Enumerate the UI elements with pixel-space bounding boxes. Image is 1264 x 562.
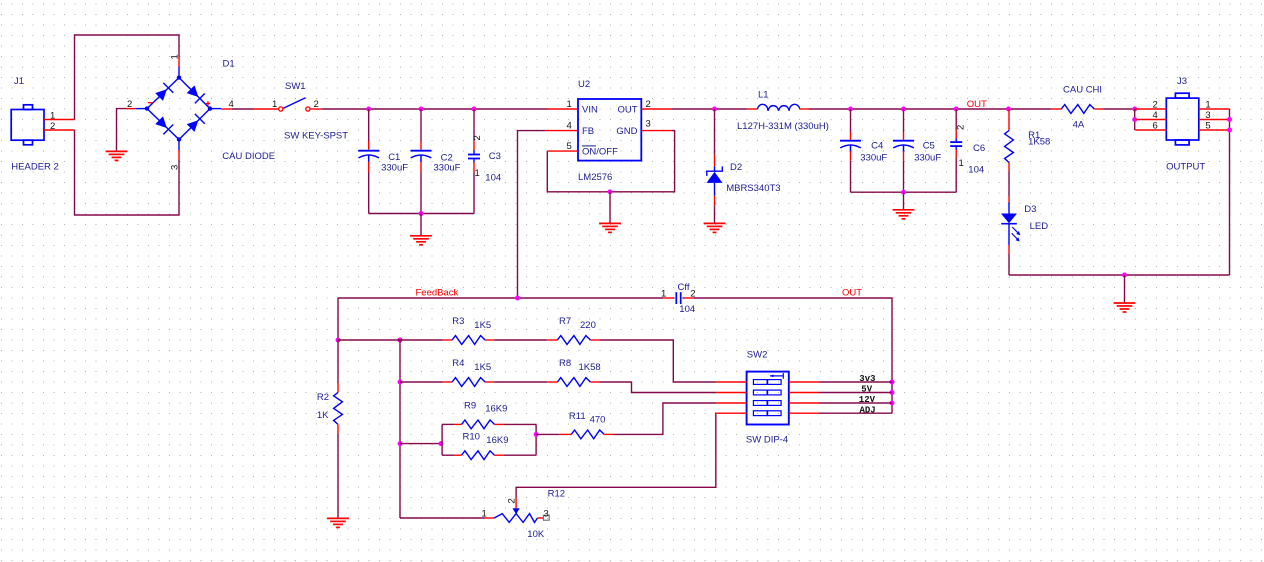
ground below input caps (410, 236, 432, 245)
junction at C6 (954, 107, 959, 112)
svg-text:R7: R7 (559, 316, 571, 327)
svg-text:D1: D1 (223, 59, 235, 70)
capacitor C3 104 (468, 109, 483, 214)
L1 refdes label (758, 89, 769, 100)
output caps bottom rail wire (851, 191, 957, 193)
wire U2 OUT to L1 (671, 108, 747, 110)
capacitor C1 330uF (358, 109, 379, 214)
svg-text:5V: 5V (861, 385, 872, 395)
junction at C1 (366, 107, 371, 112)
resistor R3 1K5 (443, 336, 494, 345)
junction OUT at 12V row (890, 401, 895, 406)
D3 value label LED (1030, 221, 1049, 232)
SW2 pin 7 stub (5V) (789, 392, 819, 394)
R12 value label (527, 529, 545, 540)
schottky diode D2 MBRS340T3 (707, 109, 723, 223)
U2 pin 2 OUT stub (641, 99, 671, 110)
svg-text:2: 2 (507, 498, 518, 503)
SW1 value label SW KEY-SPST (284, 131, 348, 142)
wire 5V row to OUT (819, 392, 892, 394)
svg-text:OUT: OUT (967, 99, 987, 110)
net alias 3v3 (859, 374, 875, 384)
SW2 pin 3 stub (716, 402, 746, 404)
svg-text:10K: 10K (527, 529, 545, 540)
input caps bottom rail wire (369, 213, 474, 215)
J3 pin 1 stub (1199, 100, 1230, 111)
CAU CHI value label 4A (1073, 119, 1085, 130)
J3 refdes label (1177, 76, 1187, 87)
Cff value label (679, 304, 695, 315)
SW2 pin 5 stub (ADJ) (789, 412, 819, 414)
junction at J3 pin2 (1132, 107, 1137, 112)
wire fuse to J3 (1104, 108, 1136, 110)
svg-text:MBRS340T3: MBRS340T3 (726, 183, 780, 194)
svg-text:C5: C5 (923, 141, 935, 152)
J1 value label HEADER 2 (11, 162, 59, 173)
D3 refdes label (1024, 204, 1036, 215)
svg-text:1K: 1K (317, 410, 329, 421)
svg-text:D3: D3 (1024, 204, 1036, 215)
U2 pin 5 ON/OFF stub (547, 141, 578, 152)
svg-text:L1: L1 (758, 89, 769, 100)
svg-text:5: 5 (567, 141, 572, 152)
C2 value label (434, 162, 461, 173)
L1 value label (737, 121, 829, 132)
wire J1 pin1 to bridge pin1 (top loop) (75, 35, 180, 120)
svg-text:2: 2 (127, 99, 132, 110)
junction at R4 row (398, 380, 403, 385)
C6 value label (968, 165, 984, 176)
net label FeedBack (416, 288, 459, 299)
C1 refdes label (388, 152, 400, 163)
wire R7 to SW2 pin1 (600, 340, 717, 382)
U2 pin 4 FB stub (545, 121, 578, 132)
junction OUT at 3v3 row (890, 380, 895, 385)
svg-text:2: 2 (50, 121, 55, 132)
D1 pin 1 lead (top) (170, 54, 181, 77)
SW2 pin 6 stub (12V) (789, 402, 819, 404)
C3 value label (485, 173, 501, 184)
svg-text:1: 1 (661, 289, 666, 300)
junction at J3 pin4 (1132, 117, 1137, 122)
J3 pin 2 stub (1135, 100, 1166, 111)
svg-text:CAU CHI: CAU CHI (1063, 85, 1102, 96)
R7 refdes label (559, 316, 571, 327)
R8 value label (579, 362, 601, 373)
svg-text:1K5: 1K5 (474, 320, 491, 331)
wire R11 to SW2 pin3 (613, 403, 716, 434)
R2 refdes label (317, 392, 329, 403)
J3 pin 5 stub (1199, 121, 1230, 132)
capacitor C2 330uF (411, 109, 432, 214)
junction at R9R10 left edge (438, 441, 443, 446)
J3 value label OUTPUT (1166, 162, 1205, 173)
net alias 12V (859, 395, 876, 405)
svg-text:16K9: 16K9 (486, 435, 508, 446)
svg-text:2: 2 (1153, 100, 1158, 111)
fuse CAU CHI 4A (1052, 105, 1104, 114)
C4 value label (860, 152, 887, 163)
divider column vertical wire (399, 340, 401, 518)
svg-text:SW2: SW2 (747, 349, 768, 360)
wire U2 ON/OFF to ground rail (547, 131, 674, 192)
junction at divider column top (398, 338, 403, 343)
resistor R10 16K9 (442, 451, 536, 460)
main input rail wire SW1 to U2 (322, 108, 548, 110)
wire R4 row (400, 381, 443, 383)
wire feedback rail down to divider (337, 298, 339, 340)
svg-text:2: 2 (955, 125, 966, 130)
junction at R9R10 row (398, 441, 403, 446)
CAU CHI refdes label (1063, 85, 1102, 96)
svg-text:3: 3 (1205, 110, 1210, 121)
junction at J3 pin5 (1227, 128, 1232, 133)
junction at U2 ground (608, 189, 613, 194)
svg-text:C4: C4 (871, 141, 883, 152)
wire to R9 R10 pair (400, 443, 442, 445)
C1 value label (381, 162, 408, 173)
R9 R10 parallel loop right edge (535, 424, 537, 455)
R1 refdes label (1028, 130, 1040, 141)
svg-text:1: 1 (475, 168, 480, 179)
wire J3 right pins to ground rail (1229, 109, 1231, 275)
svg-text:2: 2 (314, 99, 319, 110)
J3 pin 6 stub (1135, 121, 1166, 132)
svg-text:1: 1 (959, 158, 964, 169)
svg-text:12V: 12V (859, 395, 876, 405)
ground below output rail (1114, 303, 1136, 312)
svg-text:2: 2 (472, 135, 483, 140)
SW2 pin 8 stub (3v3) (789, 381, 819, 383)
svg-text:3: 3 (646, 119, 651, 130)
svg-text:U2: U2 (578, 79, 590, 90)
svg-text:1K58: 1K58 (1028, 137, 1050, 148)
wire J3 left pins vertical (1134, 109, 1136, 130)
wire to U2 ground symbol (609, 192, 611, 223)
connector J1 (11, 105, 44, 145)
D1 value label CAU DIODE (222, 151, 275, 162)
C2 refdes label (441, 153, 453, 164)
svg-text:FeedBack: FeedBack (416, 288, 459, 299)
R11 value label (590, 414, 606, 425)
wire 3v3 row to OUT (819, 381, 892, 383)
svg-text:330uF: 330uF (914, 152, 941, 163)
R2 value label (317, 410, 329, 421)
svg-text:D2: D2 (730, 162, 742, 173)
J1 refdes label (14, 76, 24, 87)
R4 value label (474, 362, 491, 373)
wire R12 wiper to SW2 pin4 (ADJ) (516, 413, 716, 497)
ground below R2 (327, 518, 349, 527)
wire D1 pin2 to ground (117, 109, 127, 151)
SW2 value label SW DIP-4 (746, 435, 788, 446)
svg-text:104: 104 (485, 173, 501, 184)
R1 value label (1028, 137, 1050, 148)
D1 refdes label (223, 59, 235, 70)
U2 refdes label (578, 79, 590, 90)
wire R3 row (338, 339, 443, 341)
svg-text:OUT: OUT (842, 287, 862, 298)
wire R9R10 to R11 (536, 433, 560, 435)
junction at C2 (419, 107, 424, 112)
svg-text:16K9: 16K9 (485, 404, 507, 415)
Cff refdes label (678, 282, 690, 293)
junction at C2 bottom (419, 211, 424, 216)
svg-text:LM2576: LM2576 (578, 172, 612, 183)
ground below D2 (704, 223, 726, 232)
junction feedback at FB wire (515, 296, 520, 301)
svg-text:CAU DIODE: CAU DIODE (222, 151, 275, 162)
U2 pin 1 VIN stub (548, 99, 578, 110)
resistor R4 1K5 (443, 378, 494, 387)
svg-text:330uF: 330uF (381, 162, 408, 173)
D1 pin 2 lead (left) (126, 99, 147, 110)
junction at C5 bottom (901, 190, 906, 195)
J3 pin 4 stub (1135, 110, 1166, 121)
junction at C5 (901, 107, 906, 112)
feedback rail wire (338, 297, 663, 299)
D2 value label (726, 183, 780, 194)
svg-text:3: 3 (170, 165, 181, 170)
svg-text:R11: R11 (569, 411, 586, 422)
svg-text:J3: J3 (1177, 76, 1187, 87)
potentiometer R12 10K (482, 498, 550, 523)
wire D1 pin4 to SW1 (232, 108, 254, 110)
J3 pin 3 stub (1199, 110, 1230, 121)
net label OUT (output rail) (967, 99, 987, 110)
wire divider column to R12 pin1 (400, 517, 485, 519)
svg-text:R2: R2 (317, 392, 329, 403)
net alias 5V (861, 385, 872, 395)
svg-text:OUT: OUT (617, 104, 637, 115)
wire R4 to R8 (494, 381, 547, 383)
svg-text:4A: 4A (1073, 119, 1085, 130)
svg-text:ON/OFF: ON/OFF (582, 146, 618, 157)
R8 refdes label (559, 358, 571, 369)
junction OUT at 5V row (890, 390, 895, 395)
R3 refdes label (452, 316, 464, 327)
svg-text:C6: C6 (973, 143, 985, 154)
wire U2 FB to feedback net (518, 131, 546, 298)
R10 value label (486, 435, 508, 446)
svg-text:LED: LED (1030, 221, 1049, 232)
wire R3 to R7 (494, 339, 547, 341)
svg-text:Cff: Cff (678, 282, 690, 293)
inductor L1 (747, 104, 809, 110)
resistor R11 470 (560, 430, 613, 439)
SW2 pin 2 stub (716, 392, 746, 394)
wire ADJ row to OUT (819, 412, 892, 414)
svg-text:1: 1 (170, 54, 181, 59)
SW2 pin 1 stub (716, 381, 746, 383)
IC U2 LM2576 body (578, 99, 641, 161)
resistor R9 16K9 (442, 420, 536, 429)
svg-text:470: 470 (590, 414, 606, 425)
svg-text:104: 104 (968, 165, 984, 176)
junction at R9R10 right edge (534, 432, 539, 437)
R9 value label (485, 404, 507, 415)
bridge rectifier D1 (CAU DIODE) (145, 75, 212, 141)
svg-text:1: 1 (50, 110, 55, 121)
R10 refdes label (463, 431, 480, 442)
capacitor C5 330uF (893, 109, 914, 192)
resistor R7 220 (547, 336, 600, 345)
svg-text:1K58: 1K58 (579, 362, 601, 373)
capacitor Cff 104 (661, 289, 696, 304)
output rail wire L1 to fuse (809, 108, 1052, 110)
resistor R8 1K58 (547, 378, 600, 387)
R4 refdes label (452, 358, 464, 369)
svg-text:C3: C3 (489, 151, 501, 162)
SW2 refdes label (747, 349, 768, 360)
svg-text:1K5: 1K5 (474, 362, 491, 373)
wire Cff to OUT vertical (693, 298, 892, 413)
C4 refdes label (871, 141, 883, 152)
svg-text:L127H-331M (330uH): L127H-331M (330uH) (737, 121, 829, 132)
net label OUT (feedback) (842, 287, 862, 298)
SW2 pin 4 stub (716, 412, 746, 414)
svg-text:R3: R3 (452, 316, 464, 327)
C5 value label (914, 152, 941, 163)
svg-text:1: 1 (482, 509, 487, 520)
R3 value label (474, 320, 491, 331)
svg-text:3v3: 3v3 (859, 374, 875, 384)
junction at R2 top (336, 338, 341, 343)
D1 pin 3 lead (bottom) (170, 140, 181, 171)
J1 pin 1 stub (44, 110, 75, 121)
resistor R2 1K (334, 340, 343, 518)
svg-text:3: 3 (544, 509, 549, 520)
net alias ADJ (860, 405, 876, 415)
svg-text:VIN: VIN (582, 104, 598, 115)
svg-text:5: 5 (1205, 121, 1210, 132)
svg-text:330uF: 330uF (860, 152, 887, 163)
svg-text:HEADER 2: HEADER 2 (11, 162, 59, 173)
wire C2 bottom to ground (420, 214, 422, 236)
D1 pin 4 lead (right) (210, 99, 234, 110)
ground at bridge pin 2 (106, 151, 128, 160)
R12 refdes label (548, 488, 565, 499)
svg-text:SW1: SW1 (285, 81, 306, 92)
svg-text:J1: J1 (14, 76, 24, 87)
D2 refdes label (730, 162, 742, 173)
J1 pin 2 stub (44, 121, 75, 132)
wire J1 pin2 to bridge pin3 (bottom loop) (75, 130, 180, 215)
R9 refdes label (464, 401, 476, 412)
U2 pin 3 GND stub (641, 119, 671, 131)
resistor R1 1K58 (1005, 109, 1014, 196)
SW1 refdes label (285, 81, 306, 92)
svg-text:220: 220 (580, 320, 596, 331)
svg-text:6: 6 (1153, 121, 1158, 132)
svg-text:330uF: 330uF (434, 162, 461, 173)
output ground rail wire (1009, 274, 1230, 276)
C5 refdes label (923, 141, 935, 152)
wire R8 to SW2 pin2 (600, 382, 717, 393)
wire C5 bottom to ground (903, 192, 905, 209)
svg-text:GND: GND (616, 126, 637, 137)
svg-text:4: 4 (567, 121, 572, 132)
svg-text:FB: FB (582, 126, 594, 137)
junction at C4 (848, 107, 853, 112)
svg-text:104: 104 (679, 304, 695, 315)
switch SW1 SW KEY-SPST (254, 98, 322, 111)
svg-text:1: 1 (272, 99, 277, 110)
svg-text:ADJ: ADJ (860, 405, 876, 415)
svg-text:4: 4 (1153, 110, 1158, 121)
svg-text:R8: R8 (559, 358, 571, 369)
C6 refdes label (973, 143, 985, 154)
junction at R1 (1006, 107, 1011, 112)
R9 R10 parallel loop left edge (441, 424, 443, 455)
C3 refdes label (489, 151, 501, 162)
junction at J3 pin3 (1227, 117, 1232, 122)
U2 value label LM2576 (578, 172, 612, 183)
svg-text:R12: R12 (548, 488, 565, 499)
connector J3 OUTPUT (1166, 93, 1199, 145)
capacitor C4 330uF (840, 109, 861, 192)
wire to output ground symbol (1124, 275, 1126, 302)
ground below output caps (893, 210, 915, 219)
svg-text:1: 1 (1205, 100, 1210, 111)
wire 12V row to OUT (819, 402, 892, 404)
svg-text:SW DIP-4: SW DIP-4 (746, 435, 788, 446)
junction at C3 (472, 107, 477, 112)
junction at D2 (712, 107, 717, 112)
svg-text:1: 1 (567, 99, 572, 110)
capacitor C6 104 (950, 109, 966, 192)
svg-text:R4: R4 (452, 358, 464, 369)
junction at output ground rail (1122, 273, 1127, 278)
R11 refdes label (569, 411, 586, 422)
svg-text:OUTPUT: OUTPUT (1166, 162, 1205, 173)
svg-text:SW KEY-SPST: SW KEY-SPST (284, 131, 348, 142)
R7 value label (580, 320, 596, 331)
LED D3 (1001, 196, 1020, 275)
svg-text:2: 2 (646, 99, 651, 110)
svg-text:R9: R9 (464, 401, 476, 412)
ground below U2 (599, 223, 621, 232)
switch SW2 SW DIP-4 body (747, 372, 789, 425)
svg-text:R10: R10 (463, 431, 480, 442)
